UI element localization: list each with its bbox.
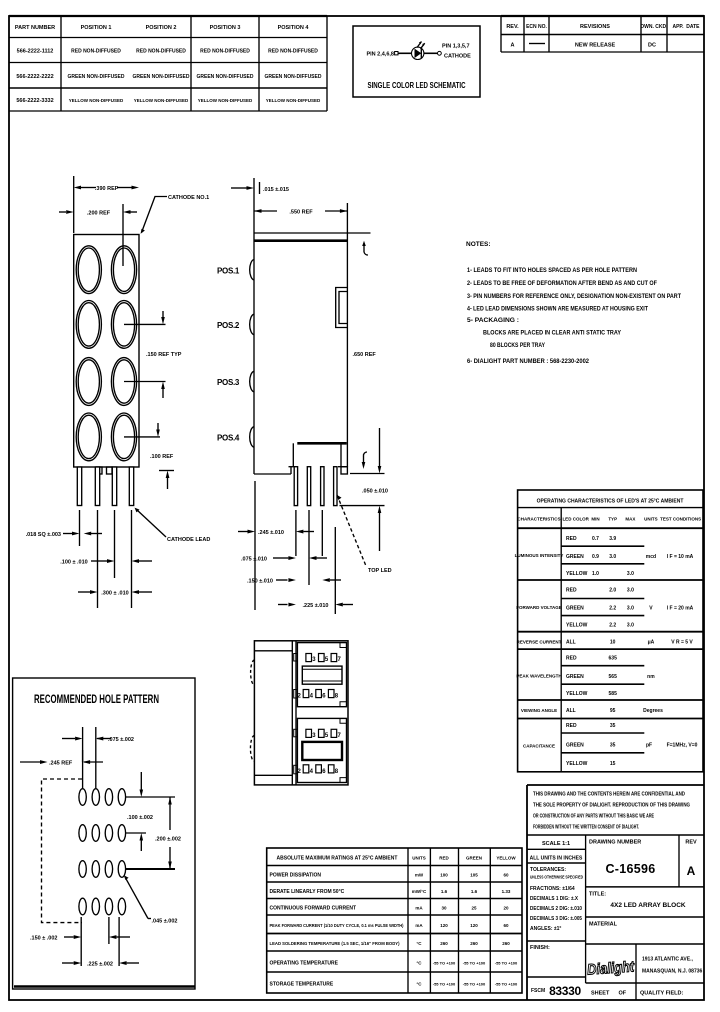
svg-text:YELLOW: YELLOW (566, 623, 588, 629)
svg-text:.550 REF: .550 REF (289, 210, 313, 216)
svg-text:0.7: 0.7 (592, 536, 599, 542)
svg-text:.390 REF: .390 REF (95, 186, 119, 192)
svg-text:POSITION 4: POSITION 4 (278, 25, 310, 31)
svg-text:THIS DRAWING AND THE CONTENTS: THIS DRAWING AND THE CONTENTS HEREIN ARE… (533, 792, 685, 798)
svg-text:100: 100 (440, 873, 448, 878)
svg-text:3.0: 3.0 (627, 571, 634, 577)
svg-text:-55 TO +100: -55 TO +100 (495, 982, 518, 987)
svg-text:POS.4: POS.4 (217, 434, 240, 443)
svg-text:3- PIN NUMBERS FOR REFERENCE O: 3- PIN NUMBERS FOR REFERENCE ONLY, DESIG… (467, 294, 681, 300)
svg-text:566-2222-2222: 566-2222-2222 (16, 74, 53, 80)
svg-text:.245 REF: .245 REF (49, 761, 73, 767)
svg-text:BLOCKS ARE PLACED IN CLEAR ANT: BLOCKS ARE PLACED IN CLEAR ANTI STATIC T… (483, 331, 621, 337)
svg-text:105: 105 (470, 873, 478, 878)
svg-text:3.0: 3.0 (627, 606, 634, 612)
svg-text:1913 ATLANTIC AVE.,: 1913 ATLANTIC AVE., (642, 957, 693, 963)
svg-text:GREEN: GREEN (566, 554, 584, 560)
svg-text:RED NON-DIFFUSED: RED NON-DIFFUSED (200, 49, 250, 55)
svg-text:YELLOW: YELLOW (566, 571, 588, 577)
svg-text:566-2222-1112: 566-2222-1112 (17, 49, 54, 55)
svg-text:YELLOW NON-DIFFUSED: YELLOW NON-DIFFUSED (69, 98, 124, 103)
svg-text:OR CONSTRUCTION OF ANY PARTS W: OR CONSTRUCTION OF ANY PARTS WITHOUT THI… (533, 814, 654, 820)
svg-text:5- PACKAGING :: 5- PACKAGING : (467, 318, 519, 324)
svg-text:565: 565 (609, 674, 618, 680)
svg-text:.150 ± .002: .150 ± .002 (30, 936, 57, 942)
svg-text:PART NUMBER: PART NUMBER (15, 25, 55, 31)
svg-text:.100 REF: .100 REF (150, 454, 174, 460)
svg-text:RED NON-DIFFUSED: RED NON-DIFFUSED (136, 49, 186, 55)
svg-text:F=1MHz, V=0: F=1MHz, V=0 (667, 743, 698, 749)
svg-text:1- LEADS TO FIT INTO HOLES SPA: 1- LEADS TO FIT INTO HOLES SPACED AS PER… (467, 268, 637, 274)
svg-text:I F = 10 mA: I F = 10 mA (667, 554, 694, 560)
svg-text:.200 ±.002: .200 ±.002 (155, 837, 181, 843)
svg-text:TEST CONDITIONS: TEST CONDITIONS (660, 517, 701, 522)
svg-text:DWN. CKD.: DWN. CKD. (641, 24, 669, 30)
svg-text:GREEN NON-DIFFUSED: GREEN NON-DIFFUSED (133, 74, 190, 80)
svg-text:NEW RELEASE: NEW RELEASE (575, 43, 616, 49)
svg-text:V R = 5 V: V R = 5 V (671, 640, 693, 646)
svg-text:RED NON-DIFFUSED: RED NON-DIFFUSED (268, 49, 318, 55)
svg-text:TOLERANCES:: TOLERANCES: (530, 867, 566, 873)
svg-text:SHEET OF: SHEET OF (591, 991, 627, 997)
svg-text:20: 20 (503, 906, 509, 911)
svg-text:60: 60 (503, 873, 509, 878)
svg-text:.075 ±.010: .075 ±.010 (241, 557, 267, 563)
svg-text:DC: DC (648, 43, 656, 49)
svg-text:566-2222-3332: 566-2222-3332 (16, 98, 53, 104)
svg-text:OPERATING TEMPERATURE: OPERATING TEMPERATURE (270, 961, 339, 967)
svg-text:YELLOW NON-DIFFUSED: YELLOW NON-DIFFUSED (134, 98, 189, 103)
svg-text:UNLESS OTHERWISE SPECIFIED: UNLESS OTHERWISE SPECIFIED (530, 875, 584, 880)
svg-text:CAPACITANCE: CAPACITANCE (523, 744, 555, 749)
svg-text:DERATE LINEARLY FROM 50°C: DERATE LINEARLY FROM 50°C (270, 889, 345, 895)
svg-text:YELLOW: YELLOW (496, 856, 516, 861)
svg-text:.100 ± .010: .100 ± .010 (60, 560, 87, 566)
svg-text:.200 REF: .200 REF (87, 211, 111, 217)
svg-text:I F = 20 mA: I F = 20 mA (667, 606, 694, 612)
svg-text:4- LED LEAD DIMENSIONS SHOWN A: 4- LED LEAD DIMENSIONS SHOWN ARE MEASURE… (467, 307, 648, 313)
svg-text:1.0: 1.0 (592, 571, 599, 577)
svg-text:3.9: 3.9 (609, 536, 616, 542)
svg-text:.050 ±.010: .050 ±.010 (362, 489, 388, 495)
svg-text:YELLOW NON-DIFFUSED: YELLOW NON-DIFFUSED (198, 98, 253, 103)
svg-text:2.2: 2.2 (609, 606, 616, 612)
svg-text:-55 TO +100: -55 TO +100 (433, 961, 456, 966)
svg-text:YELLOW NON-DIFFUSED: YELLOW NON-DIFFUSED (266, 98, 321, 103)
svg-text:585: 585 (609, 691, 618, 697)
svg-text:mcd: mcd (646, 554, 656, 560)
svg-text:260: 260 (470, 941, 478, 946)
svg-text:GREEN: GREEN (566, 674, 584, 680)
svg-text:1.6: 1.6 (471, 889, 478, 894)
svg-text:mA: mA (415, 906, 423, 911)
svg-text:.150 ±.010: .150 ±.010 (247, 579, 273, 585)
svg-text:6- DIALIGHT PART NUMBER : 568-: 6- DIALIGHT PART NUMBER : 568-2230-2002 (467, 359, 590, 365)
svg-text:3.0: 3.0 (627, 588, 634, 594)
svg-text:RECOMMENDED HOLE PATTERN: RECOMMENDED HOLE PATTERN (34, 694, 159, 706)
svg-text:635: 635 (609, 656, 618, 662)
svg-text:DECIMALS 3 DIG: ±.005: DECIMALS 3 DIG: ±.005 (530, 916, 582, 922)
svg-text:25: 25 (471, 906, 477, 911)
svg-text:NOTES:: NOTES: (466, 241, 491, 248)
svg-text:QUALITY FIELD:: QUALITY FIELD: (640, 991, 683, 997)
svg-text:FORWARD VOLTAGE: FORWARD VOLTAGE (516, 605, 562, 610)
svg-text:REV: REV (685, 840, 697, 846)
svg-text:GREEN: GREEN (566, 743, 584, 749)
svg-text:mW: mW (415, 873, 424, 878)
svg-text:0.9: 0.9 (592, 554, 599, 560)
svg-text:REV.: REV. (506, 24, 519, 30)
svg-text:POS.3: POS.3 (217, 378, 240, 387)
svg-text:°C: °C (416, 982, 422, 987)
svg-text:-55 TO +100: -55 TO +100 (463, 961, 486, 966)
svg-text:TYP: TYP (608, 517, 617, 522)
svg-text:POS.1: POS.1 (217, 267, 240, 276)
svg-text:RED NON-DIFFUSED: RED NON-DIFFUSED (71, 49, 121, 55)
svg-text:83330: 83330 (549, 984, 581, 998)
svg-text:260: 260 (502, 941, 510, 946)
svg-text:FSCM: FSCM (531, 988, 545, 994)
svg-text:ECN NO.: ECN NO. (526, 24, 547, 30)
svg-text:A: A (511, 43, 515, 49)
svg-text:RED: RED (566, 536, 577, 542)
svg-text:LEAD SOLDERING TEMPERATURE (1.: LEAD SOLDERING TEMPERATURE (1.5 SEC, 1/1… (270, 941, 400, 946)
svg-text:1.33: 1.33 (502, 889, 511, 894)
svg-text:POSITION 2: POSITION 2 (146, 25, 177, 31)
svg-text:RED: RED (566, 588, 577, 594)
svg-text:LED COLOR: LED COLOR (562, 517, 589, 522)
svg-text:Degrees: Degrees (643, 708, 663, 714)
svg-text:-55 TO +100: -55 TO +100 (463, 982, 486, 987)
svg-text:POS.2: POS.2 (217, 321, 240, 330)
svg-text:120: 120 (440, 923, 448, 928)
svg-text:PEAK WAVELENGTH: PEAK WAVELENGTH (516, 674, 561, 679)
svg-text:OPERATING CHARACTERISTICS OF L: OPERATING CHARACTERISTICS OF LED'S AT 25… (537, 499, 684, 505)
svg-text:.100 ±.002: .100 ±.002 (127, 815, 153, 821)
svg-text:YELLOW: YELLOW (566, 691, 588, 697)
svg-text:.150 REF TYP: .150 REF TYP (146, 352, 182, 358)
svg-text:DECIMALS 1 DIG: ±.X: DECIMALS 1 DIG: ±.X (530, 896, 579, 902)
svg-text:VIEWING ANGLE: VIEWING ANGLE (521, 708, 557, 713)
svg-text:STORAGE TEMPERATURE: STORAGE TEMPERATURE (270, 982, 334, 988)
svg-text:.075 ±.002: .075 ±.002 (108, 737, 134, 743)
svg-text:POSITION 3: POSITION 3 (210, 25, 241, 31)
svg-text:30: 30 (441, 906, 447, 911)
svg-text:260: 260 (440, 941, 448, 946)
svg-text:10: 10 (610, 640, 616, 646)
svg-text:TITLE:: TITLE: (589, 892, 606, 898)
svg-text:MAX: MAX (625, 517, 635, 522)
svg-text:RED: RED (439, 856, 449, 861)
svg-text:MANASQUAN, N.J. 08736: MANASQUAN, N.J. 08736 (642, 969, 703, 975)
svg-text:APP. DATE: APP. DATE (672, 24, 700, 30)
svg-text:CATHODE: CATHODE (444, 54, 471, 60)
svg-text:FRACTIONS: ±1/64: FRACTIONS: ±1/64 (530, 886, 575, 892)
svg-text:REVISIONS: REVISIONS (580, 24, 610, 30)
svg-text:MATERIAL: MATERIAL (589, 922, 618, 928)
svg-text:.045 ±.002: .045 ±.002 (152, 919, 178, 925)
svg-text:ALL UNITS IN INCHES: ALL UNITS IN INCHES (530, 856, 583, 862)
svg-text:A: A (687, 864, 696, 878)
svg-text:GREEN NON-DIFFUSED: GREEN NON-DIFFUSED (197, 74, 254, 80)
svg-text:LUMINOUS INTENSITY: LUMINOUS INTENSITY (515, 553, 564, 558)
svg-text:UNITS: UNITS (412, 856, 426, 861)
svg-text:mA: mA (415, 923, 423, 928)
svg-text:SINGLE COLOR LED SCHEMATIC: SINGLE COLOR LED SCHEMATIC (368, 81, 466, 90)
svg-text:mW/°C: mW/°C (412, 889, 427, 894)
svg-text:C-16596: C-16596 (605, 862, 655, 876)
svg-text:Dialight: Dialight (587, 958, 636, 978)
svg-text:DRAWING NUMBER: DRAWING NUMBER (589, 840, 641, 846)
svg-text:PEAK FORWARD CURRENT (1/10 DUT: PEAK FORWARD CURRENT (1/10 DUTY CYCLE, 0… (270, 923, 404, 928)
svg-text:POWER DISSIPATION: POWER DISSIPATION (270, 873, 322, 879)
svg-text:.300 ± .010: .300 ± .010 (101, 591, 128, 597)
svg-text:ANGLES: ±1°: ANGLES: ±1° (530, 926, 561, 932)
svg-text:RED: RED (566, 656, 577, 662)
svg-text:MIN: MIN (591, 517, 599, 522)
svg-text:60: 60 (503, 923, 509, 928)
svg-text:120: 120 (470, 923, 478, 928)
svg-text:-55 TO +100: -55 TO +100 (495, 961, 518, 966)
svg-text:SCALE 1:1: SCALE 1:1 (542, 841, 570, 847)
svg-text:DECIMALS 2 DIG: ±.010: DECIMALS 2 DIG: ±.010 (530, 906, 582, 912)
svg-text:FORBIDDEN WITHOUT THE WRITTEN: FORBIDDEN WITHOUT THE WRITTEN CONSENT OF… (533, 825, 639, 831)
svg-text:GREEN: GREEN (466, 856, 482, 861)
svg-text:3.0: 3.0 (627, 623, 634, 629)
svg-text:CHARACTERISTICS: CHARACTERISTICS (517, 517, 560, 522)
svg-text:.650 REF: .650 REF (353, 352, 377, 358)
svg-text:CONTINUOUS FORWARD CURRENT: CONTINUOUS FORWARD CURRENT (270, 906, 357, 912)
svg-text:3.0: 3.0 (609, 554, 616, 560)
svg-text:ABSOLUTE MAXIMUM RATINGS AT 25: ABSOLUTE MAXIMUM RATINGS AT 25°C AMBIENT (277, 856, 398, 862)
svg-text:15: 15 (610, 761, 616, 767)
svg-text:-55 TO +100: -55 TO +100 (433, 982, 456, 987)
svg-text:4X2 LED ARRAY BLOCK: 4X2 LED ARRAY BLOCK (610, 902, 686, 909)
svg-text:1.6: 1.6 (441, 889, 448, 894)
svg-text:35: 35 (610, 723, 616, 729)
svg-text:THE SOLE PROPERTY OF DIALIGHT.: THE SOLE PROPERTY OF DIALIGHT. REPRODUCT… (533, 803, 690, 809)
svg-text:ALL: ALL (566, 640, 576, 646)
svg-text:GREEN: GREEN (566, 606, 584, 612)
svg-text:.225 ±.002: .225 ±.002 (87, 962, 113, 968)
svg-text:.015 ±.015: .015 ±.015 (263, 187, 289, 193)
svg-text:°C: °C (416, 941, 422, 946)
svg-text:POSITION 1: POSITION 1 (81, 25, 112, 31)
svg-text:μA: μA (648, 640, 655, 646)
svg-text:PIN 1,3,5,7: PIN 1,3,5,7 (442, 44, 470, 50)
svg-text:GREEN NON-DIFFUSED: GREEN NON-DIFFUSED (68, 74, 125, 80)
svg-text:nm: nm (647, 674, 655, 680)
svg-text:80 BLOCKS PER TRAY: 80 BLOCKS PER TRAY (490, 343, 545, 349)
svg-text:pF: pF (646, 743, 652, 749)
svg-text:.225 ±.010: .225 ±.010 (303, 603, 329, 609)
svg-text:FINISH:: FINISH: (530, 945, 550, 951)
svg-text:GREEN NON-DIFFUSED: GREEN NON-DIFFUSED (265, 74, 322, 80)
svg-text:REVERSE CURRENT: REVERSE CURRENT (517, 640, 562, 645)
svg-text:CATHODE NO.1: CATHODE NO.1 (168, 195, 209, 201)
svg-text:2- LEADS TO BE FREE OF DEFORMA: 2- LEADS TO BE FREE OF DEFORMATION AFTER… (467, 281, 657, 287)
svg-text:CATHODE LEAD: CATHODE LEAD (167, 537, 210, 543)
svg-text:RED: RED (566, 723, 577, 729)
svg-text:.018 SQ ±.003: .018 SQ ±.003 (26, 532, 61, 538)
svg-text:ALL: ALL (566, 708, 576, 714)
svg-text:95: 95 (610, 708, 616, 714)
svg-text:YELLOW: YELLOW (566, 761, 588, 767)
svg-text:2.2: 2.2 (609, 623, 616, 629)
svg-text:°C: °C (416, 961, 422, 966)
svg-text:TOP LED: TOP LED (368, 568, 392, 574)
svg-text:2.0: 2.0 (609, 588, 616, 594)
svg-text:35: 35 (610, 743, 616, 749)
svg-text:.245 ±.010: .245 ±.010 (258, 530, 284, 536)
svg-text:UNITS: UNITS (644, 517, 658, 522)
svg-text:PIN 2,4,6,8: PIN 2,4,6,8 (366, 52, 394, 58)
